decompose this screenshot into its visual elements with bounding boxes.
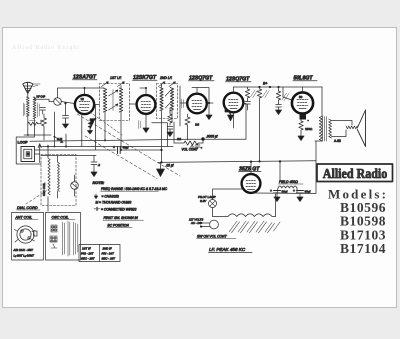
- svg-text:1ST IF: 1ST IF: [82, 247, 91, 251]
- label switch: [197, 235, 237, 239]
- label 12SA7GT: [73, 75, 98, 81]
- svg-text:40μf: 40μf: [123, 146, 129, 150]
- pilot lamp PL1: [209, 189, 243, 217]
- svg-text:B+: B+: [263, 82, 268, 86]
- svg-text:6.3V: 6.3V: [200, 199, 207, 203]
- diagonal dashes near V1: [90, 112, 122, 135]
- wire field coil drop: [279, 161, 281, 180]
- wire: [16, 122, 51, 164]
- wire antenna top labels: [33, 83, 40, 85]
- tube V1 12SA7GT: [75, 95, 94, 114]
- svg-text:12: 12: [81, 97, 85, 101]
- wire secondary to voice coil: [332, 121, 353, 137]
- resistor R3: [245, 87, 249, 100]
- junction: [258, 160, 260, 162]
- svg-text:SEC - 18T: SEC - 18T: [102, 257, 116, 261]
- svg-text:Allied Radio: Allied Radio: [323, 166, 388, 181]
- resistor R1: [42, 114, 47, 140]
- wire: [65, 103, 67, 115]
- antenna ANT: [23, 82, 38, 97]
- ground under V2: [143, 114, 149, 133]
- svg-text:*: *: [308, 119, 310, 123]
- Allied Radio box: [317, 164, 393, 182]
- junction: [27, 134, 29, 136]
- svg-text:I.F. PEAK 456 KC: I.F. PEAK 456 KC: [209, 247, 246, 252]
- dial cord dashed 2: [85, 136, 157, 179]
- resistor R4: [257, 87, 261, 161]
- junction: [277, 86, 279, 88]
- wire loop routing: [35, 153, 40, 155]
- IF transformer T1: [100, 84, 130, 121]
- junction: [269, 86, 271, 88]
- tube V6 35Z5GT rectifier: [242, 174, 261, 193]
- svg-text:= CONNECTED WIRES: = CONNECTED WIRES: [101, 207, 137, 211]
- electrolytic C8: [113, 146, 129, 154]
- resistor R8: [168, 112, 172, 125]
- svg-text:S.W.: S.W.: [57, 137, 63, 141]
- speaker SP1: [357, 110, 365, 147]
- svg-text:30μf: 30μf: [282, 190, 288, 194]
- wire V5 plate: [302, 87, 304, 92]
- capacitor C12: [195, 144, 203, 150]
- capacitor C11: [167, 127, 173, 133]
- resistor R10: [28, 120, 41, 126]
- svg-text:HF CAP: HF CAP: [37, 96, 46, 99]
- tube V3 12SQ7GT: [187, 94, 207, 114]
- capacitor C3: [245, 100, 251, 110]
- label 220M rotated: [282, 93, 289, 101]
- svg-text:ANT COIL: ANT COIL: [15, 216, 33, 220]
- resistor R5: [276, 87, 280, 103]
- wire V3 plate loop: [192, 88, 213, 104]
- bus AVC: [30, 139, 191, 141]
- wire AVC to V4: [191, 138, 246, 140]
- label DIAL CORD: [17, 206, 41, 210]
- svg-text:.2: .2: [98, 163, 101, 167]
- svg-text:FIRST SW. SHOWN IN: FIRST SW. SHOWN IN: [104, 216, 139, 220]
- antenna coil L1: [26, 97, 29, 122]
- resistor R6: [299, 120, 303, 134]
- table IF data: [79, 245, 120, 262]
- ground: [167, 132, 173, 137]
- dial cord leader: [26, 189, 49, 204]
- electrolytic C6: [270, 189, 288, 202]
- top B+ bus: [234, 86, 323, 88]
- svg-text:2M: 2M: [177, 137, 182, 141]
- coil L2 secondary: [33, 97, 36, 122]
- trimmer capacitor C10: [71, 175, 79, 196]
- ground: [63, 122, 69, 129]
- heater labels: [229, 221, 280, 233]
- bus rectifier output: [251, 141, 316, 194]
- wire V2 to T2: [155, 84, 172, 162]
- svg-text:BC POSITION: BC POSITION: [108, 224, 130, 228]
- svg-text:150Ω: 150Ω: [305, 127, 313, 131]
- svg-text:+: +: [113, 146, 115, 150]
- label 12SQ7GT second: [226, 77, 252, 83]
- svg-text:.05 μf: .05 μf: [166, 164, 175, 168]
- bus chassis: [41, 155, 96, 157]
- svg-text:B17103: B17103: [340, 227, 386, 242]
- junction: [279, 160, 281, 162]
- svg-text:B17104: B17104: [340, 241, 386, 256]
- svg-text:M = THOUSAND OHMS: M = THOUSAND OHMS: [96, 201, 133, 205]
- switch SW1: [54, 112, 64, 147]
- ground left of V4: [225, 108, 234, 121]
- label MEG: [30, 120, 36, 122]
- svg-text:1M: 1M: [195, 123, 200, 127]
- power plug P1: [200, 220, 218, 229]
- tube V4 12SQ7GT second: [224, 93, 244, 113]
- ground big: [157, 162, 165, 176]
- output transformer T3: [315, 116, 332, 141]
- label FIELD 450: [279, 180, 304, 184]
- wire detector coupling: [202, 139, 204, 143]
- box OSC COIL: [46, 213, 81, 261]
- wire T1 to V2: [94, 86, 137, 151]
- svg-text:AIR DUX - 3½T: AIR DUX - 3½T: [13, 248, 34, 252]
- wire: [277, 188, 297, 194]
- bus B+ lower: [159, 161, 317, 163]
- junction: [160, 149, 162, 151]
- trimmer arrows T1: [102, 82, 125, 87]
- coil winding labels: [23, 103, 39, 117]
- ground: [298, 133, 304, 141]
- label 12SQ7GT: [189, 76, 215, 82]
- tube V2 12SK7GT: [137, 95, 156, 114]
- svg-text:+: +: [201, 146, 203, 150]
- box ANT COIL: [12, 213, 44, 261]
- loop antenna LOOP: [21, 147, 35, 162]
- svg-text:LOOP: LOOP: [18, 141, 29, 145]
- svg-text:= CHASSIS: = CHASSIS: [102, 194, 120, 198]
- wire rectifier plate: [250, 162, 252, 175]
- junction: [160, 161, 162, 163]
- label 470M rotated: [251, 90, 258, 98]
- osc coil box T4: [41, 145, 76, 211]
- svg-text:FREQ RANGE : 530-1640 KC & 5.7: FREQ RANGE : 530-1640 KC & 5.7-18.3 MC: [101, 187, 168, 191]
- tube V5 50L6GT: [292, 92, 313, 113]
- legend ground glyph: [94, 194, 97, 199]
- junction: [258, 86, 260, 88]
- svg-text:30μf: 30μf: [305, 190, 311, 194]
- wire V2 cathode elbow: [152, 123, 168, 147]
- svg-text:DIAL CORD: DIAL CORD: [17, 206, 38, 210]
- svg-text:2ND I.F.: 2ND I.F.: [159, 76, 173, 80]
- junction: [94, 118, 96, 120]
- svg-text:PRI - 26T: PRI - 26T: [81, 252, 94, 256]
- svg-text:OSC COIL: OSC COIL: [42, 182, 46, 196]
- wire B+ down to transformer: [321, 87, 323, 116]
- svg-text:L₁-2¼T L₂-10¼T: L₁-2¼T L₂-10¼T: [14, 254, 35, 258]
- svg-text:A-86: A-86: [334, 139, 341, 143]
- wire segment: [65, 134, 67, 147]
- label 35Z5GT: [239, 166, 262, 172]
- voice coil: [346, 126, 357, 129]
- svg-text:FIELD 450Ω: FIELD 450Ω: [279, 180, 298, 184]
- label cathode: [139, 121, 141, 129]
- electrolytic C7: [293, 189, 311, 202]
- bus segment: [40, 146, 173, 148]
- capacitor C9: [91, 156, 100, 177]
- junction: [64, 102, 66, 104]
- tuning capacitor circle G1: [35, 98, 75, 106]
- svg-text:AC - DC: AC - DC: [190, 221, 202, 225]
- IF transformer T2: [157, 84, 178, 119]
- wire V4 top to B+ bus: [233, 87, 235, 93]
- resistor R9: [88, 119, 96, 134]
- svg-text:2ND IF: 2ND IF: [102, 247, 112, 251]
- junction: [250, 161, 252, 163]
- svg-text:B10598: B10598: [340, 214, 386, 229]
- svg-text:.0005 μf: .0005 μf: [206, 135, 219, 139]
- svg-text:B10596: B10596: [340, 200, 386, 215]
- field coil: [278, 186, 297, 188]
- junction: [208, 102, 210, 104]
- resistor R2: [185, 114, 190, 140]
- capacitor C1: [63, 116, 69, 122]
- loop tap arrow: [38, 144, 41, 163]
- label 500M rotated: [182, 99, 184, 108]
- wire V4 bottom: [234, 104, 247, 140]
- legend NOTE: [93, 181, 168, 228]
- svg-text:NOTE:: NOTE:: [93, 181, 106, 185]
- junction: [201, 137, 204, 140]
- trimmer arrows T2: [159, 82, 176, 87]
- Models text: [328, 187, 388, 257]
- svg-text:VOL CONT: VOL CONT: [182, 148, 199, 152]
- capacitor C4: [276, 103, 282, 110]
- label IF PEAK: [209, 247, 253, 252]
- svg-text:SEC - 28T: SEC - 28T: [81, 257, 95, 261]
- wire grid bus: [58, 88, 105, 98]
- capacitor C2: [40, 108, 46, 115]
- heater string: [213, 194, 276, 217]
- wire: [169, 108, 171, 112]
- capacitor C5 black: [300, 114, 307, 120]
- label 50L6GT: [293, 76, 317, 82]
- wire V2 top: [140, 88, 146, 95]
- label 12SK7GT: [133, 75, 158, 81]
- wire V3 left: [180, 86, 187, 126]
- label 10M rotated: [263, 90, 270, 98]
- ground right of V3: [206, 103, 212, 120]
- wire to V5 grid: [283, 87, 292, 100]
- svg-text:+: +: [270, 189, 272, 193]
- cathode wires under V1: [82, 105, 96, 150]
- svg-text:SW ON VOL CONT: SW ON VOL CONT: [197, 235, 228, 239]
- bus filament: [35, 149, 162, 151]
- svg-text:+: +: [293, 189, 295, 193]
- svg-text:PRI - 24T: PRI - 24T: [102, 252, 115, 256]
- legend wires glyph: [94, 207, 100, 211]
- svg-text:1ST I.F.: 1ST I.F.: [110, 76, 122, 80]
- svg-text:OSC COIL: OSC COIL: [52, 216, 69, 220]
- svg-text:50: 50: [299, 95, 303, 99]
- dial cord dashed: [77, 114, 180, 176]
- volume control R7: [174, 122, 203, 150]
- ground: [276, 110, 282, 115]
- junction dots: [47, 87, 147, 151]
